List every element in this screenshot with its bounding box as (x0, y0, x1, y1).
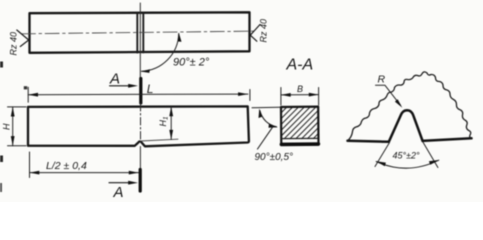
90 deg 0,5 arc (260, 111, 277, 127)
90 deg 0,5 extension line (left of square corner) (252, 106, 280, 109)
detail view base surface right (423, 138, 472, 141)
section line thick stroke (top) (139, 79, 142, 104)
svg-text:90°±0,5°: 90°±0,5° (255, 152, 294, 163)
scan speck 1 (0, 62, 3, 68)
H1 arrowhead up (169, 107, 173, 117)
flank extension left (45 deg dim) (375, 143, 389, 167)
L extension tick right (249, 90, 251, 101)
45 arc right arrowhead (429, 160, 439, 165)
detail wavy break outline (348, 72, 472, 141)
angular dimension 90 deg +-2 arc (142, 34, 179, 72)
L extension tick left (27, 87, 29, 102)
arrowhead at vertical line (points left) (141, 69, 150, 73)
dimension H extension bottom (8, 145, 27, 147)
svg-text:R: R (378, 74, 386, 86)
R leader arrowhead (395, 99, 402, 108)
section arrow A (bottom) (109, 182, 131, 184)
L left arrowhead (28, 93, 38, 97)
H arrowhead up (11, 107, 15, 117)
svg-text:A: A (113, 184, 124, 201)
svg-text:Rz 40: Rz 40 (259, 19, 269, 43)
notch root extension line (141, 139, 179, 141)
svg-text:H: H (1, 123, 11, 130)
dimension H1 line (170, 107, 172, 140)
specimen top view outline (30, 12, 250, 53)
notch centerline (side view, dash-dot) (140, 104, 142, 142)
H arrowhead down (11, 136, 15, 146)
L/2 left arrowhead (30, 171, 40, 175)
svg-text:90°± 2°: 90°± 2° (173, 57, 210, 69)
arrowhead at centerline (points up) (178, 33, 182, 42)
svg-text:A: A (109, 71, 120, 88)
L/2 right arrowhead (129, 171, 139, 175)
section arrow A (top) (110, 85, 131, 87)
scan speck 3 (0, 183, 2, 192)
horizontal axis centerline (dash-dot) (22, 31, 258, 34)
svg-text:B: B (297, 84, 303, 94)
notch edge line left (top view) (136, 13, 138, 53)
notch root line in section (281, 137, 318, 139)
roughness mark Rz40 left (17, 30, 29, 47)
arc arrowhead up (259, 109, 263, 119)
detail view base surface left (348, 141, 389, 142)
thick bottom edge of section (281, 142, 318, 146)
dimension H extension top (8, 106, 27, 108)
leader line to 90 deg 0,5 label (258, 127, 273, 149)
45 arc left arrowhead (376, 161, 386, 166)
svg-text:Rz 40: Rz 40 (9, 32, 19, 56)
dimension B extension right (318, 88, 320, 106)
specimen side view outline with notch (28, 106, 249, 146)
dimension L line (28, 93, 248, 96)
L right arrowhead (238, 92, 248, 96)
dimension L/2 line (30, 172, 139, 174)
dimension L/2 extension left (29, 152, 31, 178)
section plane trace vertical line (top view) (139, 3, 141, 81)
svg-text:A-A: A-A (286, 57, 314, 74)
scan speck 4 (24, 86, 27, 89)
scan speck 2 (0, 156, 3, 163)
B right arrowhead (309, 93, 319, 97)
svg-text:L: L (147, 82, 154, 96)
arc arrowhead right (269, 124, 278, 128)
svg-text:45°±2°: 45°±2° (393, 151, 421, 161)
detail notch profile with radius tip (389, 110, 423, 142)
dimension B line (281, 94, 319, 96)
section square hatch (282, 107, 319, 139)
B left arrowhead (281, 93, 291, 97)
roughness mark Rz40 right (250, 25, 260, 42)
45 deg arc (376, 160, 439, 168)
H1 arrowhead down (169, 130, 173, 140)
section line thick stroke (bottom) (139, 170, 142, 192)
section square outline (281, 107, 319, 146)
svg-text:L/2 ± 0,4: L/2 ± 0,4 (46, 160, 87, 172)
svg-text:H1: H1 (158, 116, 170, 127)
notch edge line right (top view) (142, 13, 144, 53)
section trace below notch (side view) (139, 147, 141, 171)
dimension H line (12, 107, 14, 146)
dimension B extension left (280, 88, 282, 106)
flank extension right (45 deg dim) (423, 142, 438, 168)
